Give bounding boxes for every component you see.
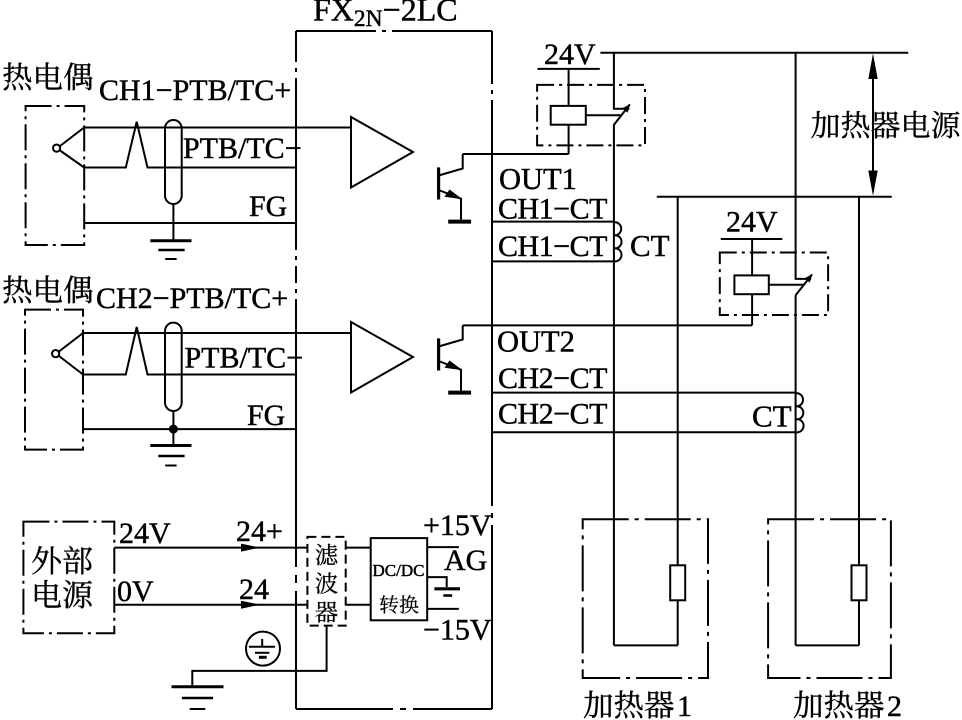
ground symbol CH1 shield [150, 241, 191, 259]
wire coil2 bottom to OUT2 [751, 294, 753, 325]
wire heater2 U bottom [796, 644, 859, 646]
wire 0V supply [114, 604, 307, 606]
label external power (wai bu / dian yuan) [32, 546, 61, 574]
shield capsule CH2 [165, 323, 182, 411]
FX2N-2LC module boundary box [296, 31, 492, 709]
wire CH1 TC+ to amplifier [84, 127, 351, 129]
svg-text:1: 1 [677, 690, 692, 720]
wire FG1 [84, 222, 296, 224]
label converter (zhuan huan) [380, 595, 398, 613]
svg-text:24V: 24V [544, 38, 596, 71]
svg-text:−15V: −15V [423, 614, 492, 647]
label heater 2 (jia re qi 2) [794, 691, 822, 719]
terminal bar 24V relay2 [721, 238, 783, 240]
svg-text:AG: AG [444, 544, 487, 577]
wire heater1 right from return rail [677, 197, 679, 646]
svg-text:0V: 0V [117, 575, 154, 608]
label thermocouple 2 (re dian ou) [3, 275, 31, 303]
label heater 1 (jia re qi 1) [584, 691, 612, 719]
label heater power (jia re qi dian yuan) [811, 111, 839, 138]
wire coil1 bottom to OUT1 [568, 125, 570, 154]
svg-text:+15V: +15V [423, 509, 492, 542]
ground symbol CH2 shield [150, 446, 191, 466]
wire contact1 down through CT1 to heater1 [613, 126, 615, 646]
ground symbol main [172, 687, 224, 709]
op-amp buffer CH2 [351, 322, 413, 393]
resistor heater1 element [670, 565, 685, 600]
label filter vertical [316, 544, 338, 566]
svg-text:CT: CT [630, 228, 670, 263]
relay 1 dashed box [537, 85, 645, 145]
heater power double arrow [868, 54, 877, 196]
wire AG with drop [427, 577, 447, 587]
svg-text:DC/DC: DC/DC [373, 561, 425, 580]
svg-text:CT: CT [752, 399, 792, 434]
wire 24V to coil1 [568, 69, 570, 106]
svg-text:PTB/TC−: PTB/TC− [183, 132, 302, 165]
wire filter to dcdc bottom [346, 604, 371, 606]
transistor Q2 [439, 325, 472, 392]
protective earth circle symbol [246, 632, 280, 666]
CT1 current transformer coil [614, 222, 622, 261]
transistor Q1 [439, 154, 472, 222]
svg-text:24: 24 [239, 573, 269, 606]
ground symbol AG [434, 589, 460, 596]
wire +15V stub [427, 546, 459, 548]
relay coil K1 [551, 106, 586, 125]
svg-text:CH2−CT: CH2−CT [498, 398, 607, 431]
relay coil K2 [734, 275, 768, 294]
DC/DC converter box [371, 538, 428, 620]
thermocouple 2 junction [52, 333, 83, 375]
wire 24V supply [114, 547, 307, 549]
link coil1 to contact [586, 114, 622, 116]
shield capsule CH1 [165, 120, 182, 204]
link coil2 to contact [769, 284, 804, 286]
thermocouple 1 junction [53, 128, 84, 168]
wire 24V top rail [600, 52, 908, 54]
wire shield 2 tail to ground [172, 411, 174, 446]
filter dashed box (lv bo qi) [307, 537, 345, 626]
resistor heater2 element [852, 565, 867, 600]
arrow on 0V wire [241, 601, 260, 609]
svg-text:CH1−CT: CH1−CT [498, 193, 607, 226]
terminal bar 24V relay1 [538, 68, 600, 70]
svg-text:24V: 24V [119, 517, 171, 550]
wire -15V stub [427, 608, 459, 610]
wire heater2 right from return rail [858, 197, 860, 646]
svg-text:24V: 24V [726, 206, 778, 239]
junction dot FG2 [169, 425, 178, 434]
svg-text:FX2N−2LC: FX2N−2LC [313, 0, 458, 32]
wire FG2 [83, 428, 296, 430]
terminal box CH1-CT [492, 222, 614, 262]
wire filter ground run [192, 626, 326, 686]
svg-text:CH1−CT: CH1−CT [498, 230, 607, 263]
wire filter to dcdc top [346, 547, 371, 549]
svg-text:OUT2: OUT2 [497, 325, 575, 359]
heater 1 dashed box [583, 519, 708, 678]
CT2 current transformer coil [796, 393, 804, 432]
wire shield 1 tail to ground [172, 204, 174, 240]
relay contact K1 [613, 53, 630, 126]
wire 24V to coil2 [751, 239, 753, 275]
external power dashed box [23, 522, 114, 634]
arrow on 24V wire [241, 544, 260, 552]
svg-text:CH2−CT: CH2−CT [498, 362, 607, 395]
svg-text:PTB/TC−: PTB/TC− [185, 342, 304, 375]
wire contact2 down through CT2 to heater2 [795, 295, 797, 645]
svg-text:2: 2 [887, 690, 902, 720]
svg-text:CH1−PTB/TC+: CH1−PTB/TC+ [99, 74, 291, 107]
svg-text:FG: FG [249, 190, 287, 223]
wire CH2 TC+ to amplifier [83, 332, 351, 334]
wire OUT2 collector to relay2 [463, 324, 752, 326]
wire CH1 TC- with break spike [84, 122, 296, 168]
wire return rail [657, 196, 892, 198]
heater 2 dashed box [768, 519, 891, 678]
wire heater1 U bottom [614, 644, 678, 646]
wire CH2 TC- with break spike [83, 327, 296, 375]
svg-text:OUT1: OUT1 [499, 162, 577, 196]
relay 2 dashed box [720, 253, 828, 316]
label thermocouple 1 (re dian ou) [3, 62, 31, 90]
relay contact K2 [796, 53, 813, 296]
wire OUT1 collector to relay [463, 153, 569, 155]
thermocouple 2 dashed box [25, 310, 83, 450]
terminal box CH2-CT [492, 393, 796, 433]
svg-text:24+: 24+ [236, 515, 283, 548]
thermocouple 1 dashed box [26, 106, 85, 245]
op-amp buffer CH1 [351, 117, 413, 188]
svg-text:FG: FG [247, 399, 285, 432]
svg-text:CH2−PTB/TC+: CH2−PTB/TC+ [96, 282, 288, 315]
